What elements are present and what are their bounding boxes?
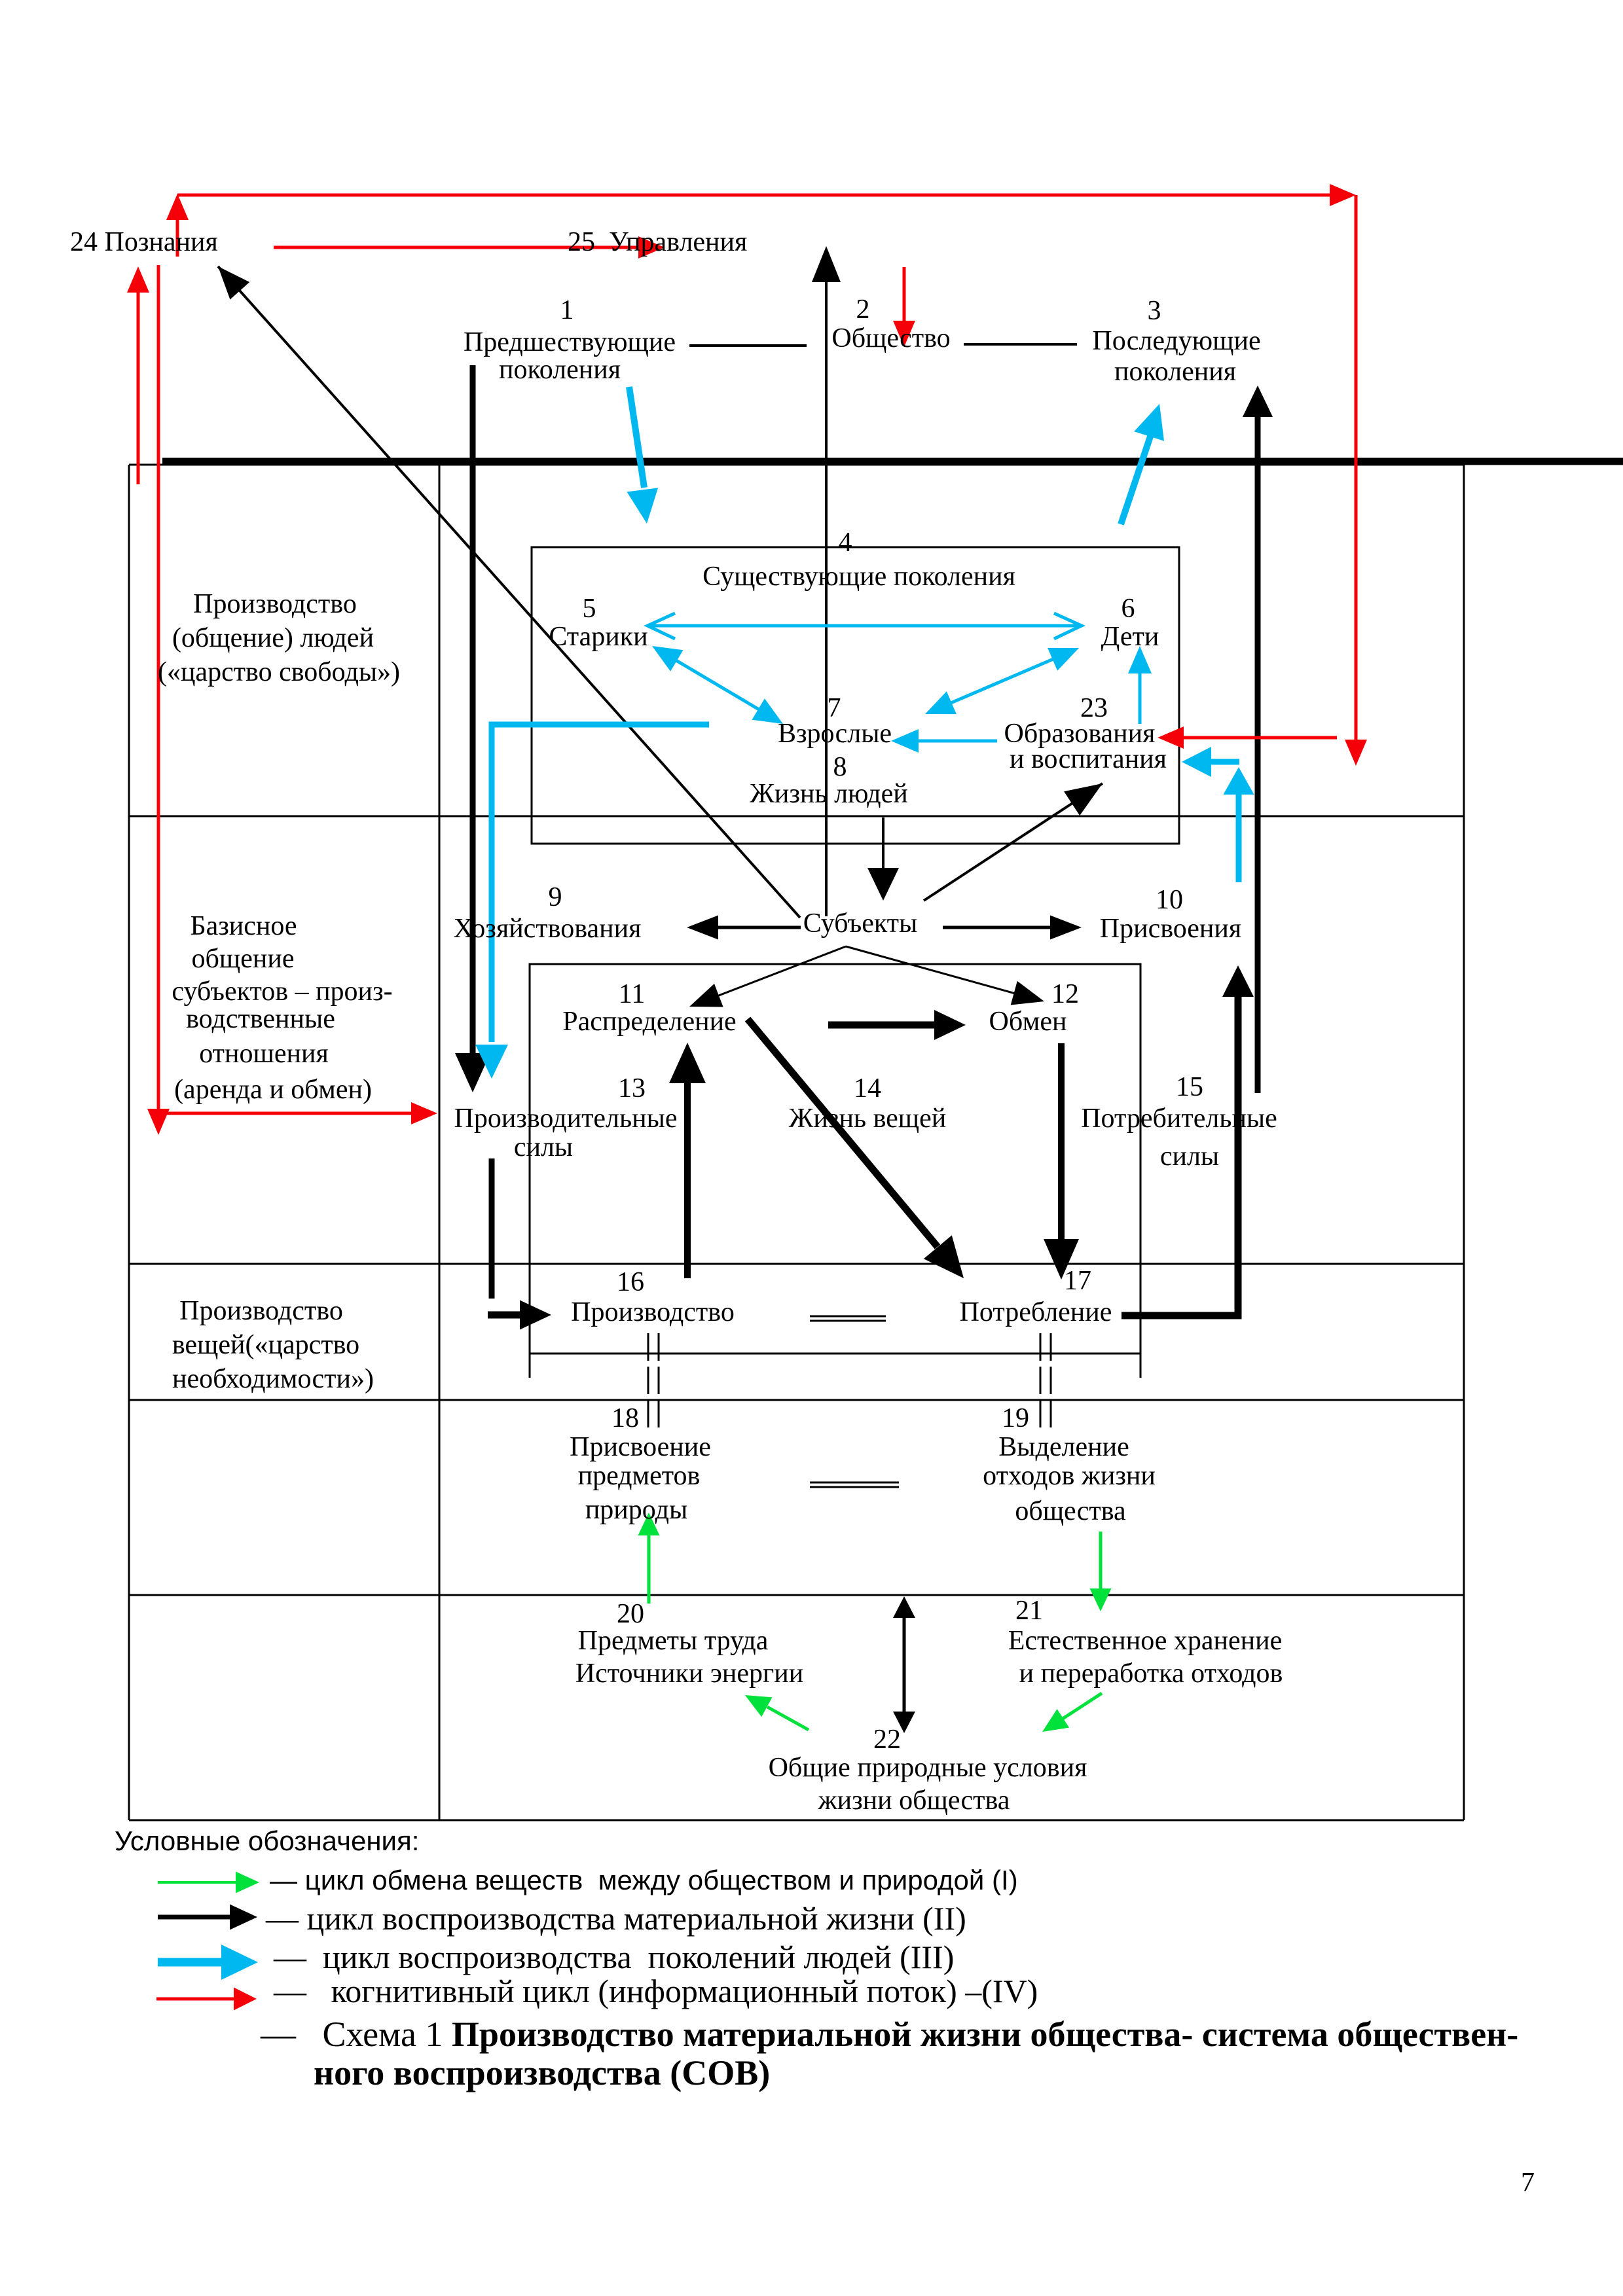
node 22 number bbox=[873, 1723, 901, 1756]
table row line 2 bbox=[129, 1263, 1464, 1265]
node 3 line1 bbox=[1092, 325, 1260, 357]
legend row3 text bbox=[274, 1939, 954, 1975]
arrow Субъекты to node 23 и воспитания bbox=[924, 783, 1103, 901]
node 12 number bbox=[1051, 978, 1079, 1011]
node 20 number bbox=[617, 1598, 644, 1630]
node 1 line1 bbox=[464, 326, 676, 359]
node 18 line3 bbox=[585, 1494, 687, 1526]
legend row4 text bbox=[274, 1973, 1038, 2009]
thick diagonal arrow node11 to node17 bbox=[748, 1019, 938, 1247]
thick arrow node12 down to node17 bbox=[1058, 1043, 1065, 1244]
node 14 label bbox=[789, 1102, 947, 1135]
dashed link below node16 bbox=[647, 1333, 649, 1427]
thick arrow node15 up to node3 bbox=[1255, 412, 1261, 1093]
table row line 3 bbox=[129, 1399, 1464, 1401]
legend black arrow bbox=[158, 1915, 230, 1920]
cyan arrow node23 to node7 bbox=[918, 740, 997, 743]
row1 header line2 bbox=[172, 622, 374, 655]
arrow Субъекты to node 10 bbox=[943, 926, 1053, 929]
equals node18-node19 bbox=[810, 1482, 899, 1484]
node 13 line1 bbox=[454, 1102, 677, 1135]
box tail right bbox=[1140, 1354, 1142, 1378]
node 16 label bbox=[571, 1296, 735, 1329]
node 7 number bbox=[828, 692, 841, 725]
node 9 label bbox=[454, 912, 642, 945]
node 19 line1 bbox=[998, 1431, 1129, 1463]
axis arrowhead up at node 2 bbox=[812, 246, 841, 282]
node 7 label bbox=[778, 717, 892, 750]
node subjects label bbox=[803, 907, 918, 940]
scheme caption line2 bbox=[314, 2053, 770, 2092]
cyan elbow arrow node7 to node13 bbox=[492, 725, 709, 1042]
node 18 number bbox=[611, 1402, 639, 1435]
row3 header line3 bbox=[172, 1363, 374, 1395]
page number bbox=[1521, 2166, 1535, 2199]
arrow Субъекты to node 9 bbox=[715, 926, 801, 929]
red arrow up at node 24-25 corner bbox=[176, 219, 179, 257]
node 19 number bbox=[1002, 1402, 1029, 1435]
node 15 line2 bbox=[1160, 1140, 1219, 1173]
node 6 label bbox=[1101, 620, 1159, 653]
thick top boundary line bbox=[162, 458, 1623, 465]
node 1 number bbox=[560, 294, 574, 327]
node 1 line2 bbox=[499, 353, 621, 386]
black double arrow node22 bbox=[903, 1615, 906, 1713]
node 6 number bbox=[1122, 592, 1135, 625]
node 11 label bbox=[562, 1005, 736, 1038]
green arrow node20 to node18 bbox=[647, 1535, 651, 1604]
equals node16-node17 bbox=[810, 1316, 886, 1318]
legend title bbox=[115, 1825, 419, 1857]
node 22 line1 bbox=[769, 1751, 1087, 1784]
axis line node2 Общество to Субъекты bbox=[825, 257, 828, 916]
row2 header line6 bbox=[174, 1073, 372, 1106]
cyan arrow node4 to node3 bbox=[1121, 423, 1155, 524]
node 3 number bbox=[1148, 295, 1161, 327]
node 21 line2 bbox=[1019, 1657, 1283, 1690]
node 20 line2 bbox=[575, 1657, 803, 1690]
outer table frame bbox=[128, 465, 130, 1820]
row1 header line1 bbox=[193, 588, 357, 620]
node 5 number bbox=[583, 592, 596, 625]
node 8 label bbox=[750, 778, 908, 810]
node 17 label bbox=[960, 1296, 1112, 1329]
node 5 label bbox=[549, 620, 647, 653]
dashed link below node17 bbox=[1040, 1333, 1042, 1427]
node 24 label bbox=[70, 226, 218, 259]
scheme caption line1 bbox=[261, 2015, 1518, 2054]
link node2-node3 bbox=[964, 343, 1077, 346]
row2 header line2 bbox=[192, 942, 295, 975]
node 10 number bbox=[1156, 884, 1183, 916]
node 25 label bbox=[568, 226, 747, 259]
node 23 number bbox=[1080, 692, 1108, 725]
green arrow node21 to node22 bbox=[1061, 1693, 1102, 1720]
green arrow node19 to node21 bbox=[1099, 1532, 1103, 1589]
node 11 number bbox=[619, 978, 645, 1011]
cognition diagonal arrow Субъекты to node 24 bbox=[218, 266, 800, 918]
node 15 number bbox=[1176, 1071, 1203, 1103]
link node1-node2 bbox=[689, 344, 807, 347]
node 18 line1 bbox=[570, 1431, 711, 1463]
cyan arrow into node23 bbox=[1209, 759, 1239, 765]
thick elbow arrow node17 to node10 bbox=[1122, 992, 1238, 1316]
node 21 line1 bbox=[1008, 1624, 1283, 1657]
node 19 line3 bbox=[1015, 1495, 1125, 1528]
table row line 4 bbox=[129, 1594, 1464, 1596]
box tail left bbox=[529, 1354, 531, 1378]
legend cyan arrow bbox=[158, 1958, 223, 1967]
row3 header line1 bbox=[179, 1295, 343, 1327]
node 14 number bbox=[854, 1072, 881, 1105]
node 22 line2 bbox=[818, 1784, 1010, 1817]
cyan double arrow node5-node7 bbox=[672, 658, 763, 712]
node 16 number bbox=[617, 1266, 644, 1299]
arrow Субъекты to node 12 bbox=[846, 946, 1020, 995]
node 10 label bbox=[1100, 912, 1241, 945]
row2 header line3 bbox=[172, 975, 392, 1008]
row2 header line1 bbox=[190, 910, 297, 942]
legend red arrow bbox=[156, 1998, 234, 2001]
node 2 number bbox=[856, 293, 870, 326]
legend green arrow bbox=[158, 1881, 236, 1884]
row2 header line5 bbox=[199, 1037, 329, 1070]
cyan arrow node10 up bbox=[1236, 794, 1242, 882]
thick arrow node13 up to node11 bbox=[684, 1080, 691, 1278]
red arrow into node 13 bbox=[158, 1112, 412, 1115]
box distribution-exchange (nodes 11-17) bbox=[530, 964, 1140, 1354]
node 15 line1 bbox=[1081, 1102, 1277, 1135]
node 23 line2 bbox=[1010, 743, 1167, 776]
node 19 line2 bbox=[983, 1460, 1156, 1492]
cyan double arrow node5-node6 bbox=[651, 624, 1078, 628]
node 4 label bbox=[702, 560, 1015, 593]
cyan double arrow node6-node7 bbox=[945, 656, 1059, 706]
node 3 line2 bbox=[1114, 355, 1236, 388]
table row line 1 bbox=[129, 816, 1464, 817]
arrow Субъекты to node 11 bbox=[714, 946, 846, 997]
red arrow up to node 24 bbox=[137, 291, 140, 484]
row3 header line2 bbox=[172, 1329, 359, 1361]
node 20 line1 bbox=[578, 1624, 769, 1657]
red arrow down at node 2 bbox=[903, 267, 906, 324]
node 13 line2 bbox=[514, 1131, 573, 1164]
cyan arrow node1 to node4 bbox=[629, 387, 644, 488]
row1 header line3 bbox=[158, 656, 400, 689]
node 12 label bbox=[989, 1005, 1067, 1038]
legend row2 text bbox=[266, 1901, 966, 1936]
red top line to right corner bbox=[177, 194, 1334, 197]
row2 header line4 bbox=[186, 1003, 335, 1035]
elbow arrow into node16 Производство bbox=[489, 1158, 495, 1299]
thick arrow node11 to node12 bbox=[828, 1022, 938, 1029]
node 2 label bbox=[831, 322, 950, 355]
node 13 number bbox=[618, 1072, 646, 1105]
table column separator bbox=[439, 465, 441, 1820]
node 18 line2 bbox=[578, 1460, 701, 1492]
cyan arrow node23 to node6 bbox=[1139, 673, 1142, 724]
node 21 number bbox=[1015, 1594, 1043, 1627]
arrow node 8 Жизнь людей down to Субъекты bbox=[882, 817, 884, 870]
node 9 number bbox=[549, 881, 562, 914]
green arrow node22 to node20 bbox=[767, 1707, 809, 1730]
node 17 number bbox=[1064, 1265, 1091, 1297]
node 8 number bbox=[833, 751, 847, 783]
node 23 line1 bbox=[1004, 717, 1156, 750]
box existing generations (node 4) bbox=[532, 547, 1179, 844]
thick arrow node1 down to node13 bbox=[470, 365, 476, 1054]
red right line down bbox=[1355, 195, 1358, 744]
legend row1 text bbox=[270, 1865, 1018, 1896]
red arrow into node 23 bbox=[1182, 736, 1337, 740]
node 4 number bbox=[839, 526, 852, 559]
red left line down bbox=[157, 265, 160, 1111]
red arrow at node 25 bbox=[274, 246, 642, 249]
